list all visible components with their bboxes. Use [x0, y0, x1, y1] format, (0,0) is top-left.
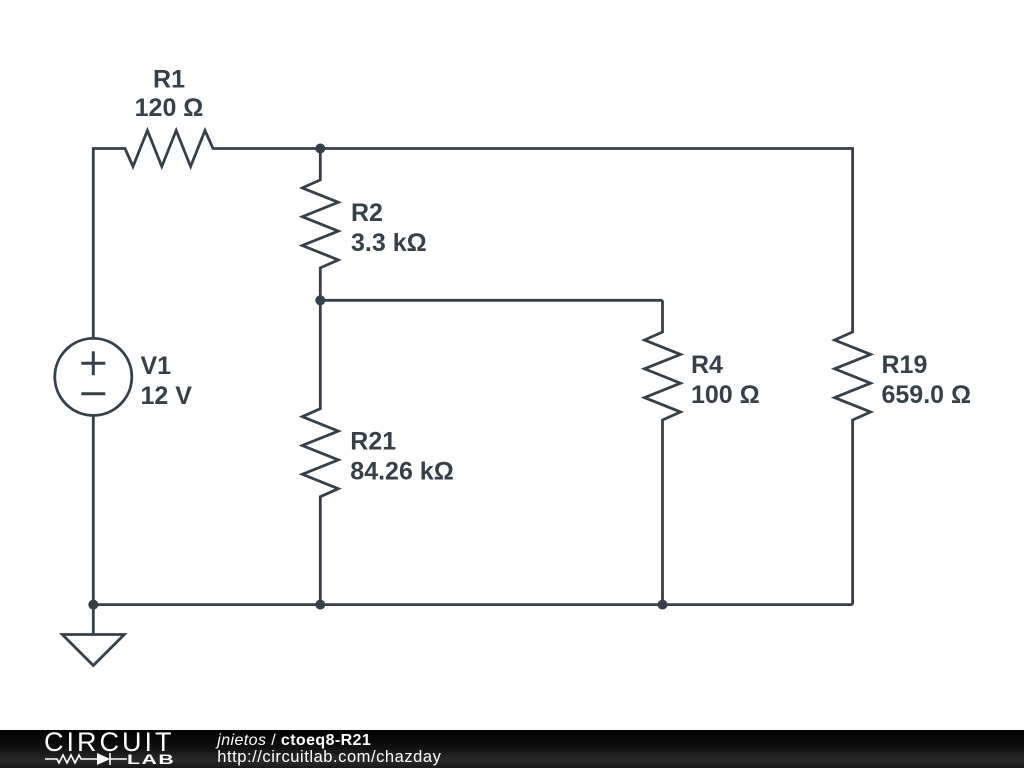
svg-text:R21: R21 [350, 428, 396, 456]
svg-text:100 Ω: 100 Ω [691, 381, 760, 409]
svg-text:R19: R19 [882, 351, 928, 379]
svg-text:R2: R2 [351, 199, 383, 227]
svg-text:R4: R4 [691, 351, 723, 379]
svg-text:LAB: LAB [127, 752, 175, 768]
svg-text:12 V: 12 V [141, 382, 193, 410]
svg-text:3.3 kΩ: 3.3 kΩ [351, 229, 427, 257]
svg-text:R1: R1 [153, 65, 185, 93]
svg-text:V1: V1 [141, 352, 172, 380]
svg-text:84.26 kΩ: 84.26 kΩ [350, 458, 453, 486]
svg-text:120 Ω: 120 Ω [135, 94, 204, 122]
svg-text:jnietos / ctoeq8-R21: jnietos / ctoeq8-R21 [215, 732, 371, 749]
svg-text:http://circuitlab.com/chazday: http://circuitlab.com/chazday [217, 748, 441, 766]
svg-text:659.0 Ω: 659.0 Ω [882, 381, 972, 409]
